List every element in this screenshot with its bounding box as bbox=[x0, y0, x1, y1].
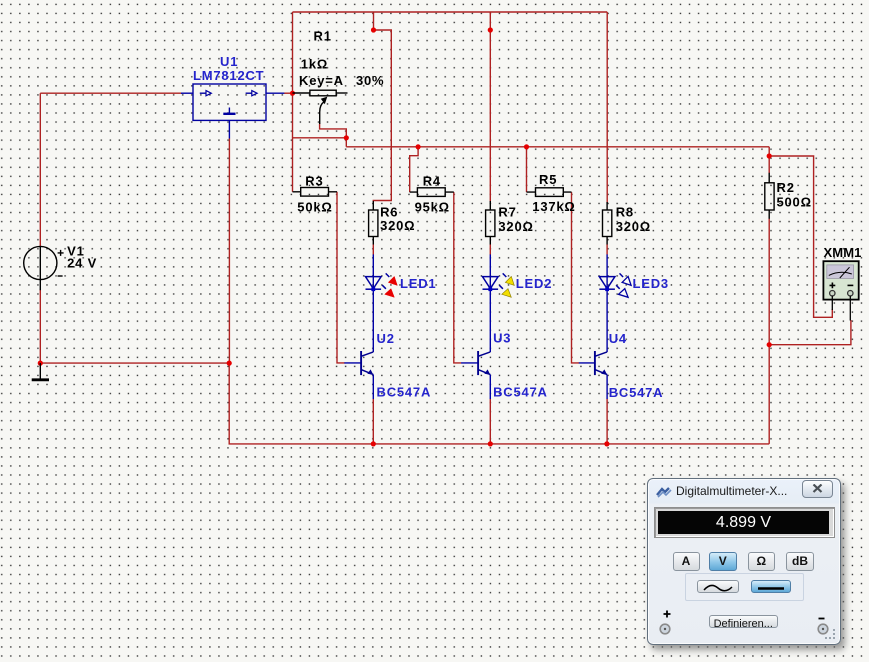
svg-text:R7: R7 bbox=[498, 205, 516, 220]
svg-text:BC547A: BC547A bbox=[609, 385, 664, 400]
svg-text:137kΩ: 137kΩ bbox=[532, 199, 575, 214]
svg-text:30%: 30% bbox=[356, 73, 384, 88]
svg-text:1kΩ: 1kΩ bbox=[301, 57, 328, 72]
svg-text:500Ω: 500Ω bbox=[777, 195, 812, 210]
svg-text:Key=A: Key=A bbox=[299, 73, 344, 88]
svg-text:R3: R3 bbox=[305, 174, 323, 189]
svg-text:R8: R8 bbox=[616, 205, 634, 220]
svg-text:50kΩ: 50kΩ bbox=[297, 200, 332, 215]
svg-text:LED2: LED2 bbox=[516, 276, 552, 291]
svg-text:320Ω: 320Ω bbox=[380, 218, 415, 233]
svg-text:24 V: 24 V bbox=[67, 256, 97, 271]
svg-text:LED1: LED1 bbox=[400, 276, 436, 291]
svg-text:R2: R2 bbox=[777, 180, 795, 195]
svg-text:U2: U2 bbox=[377, 331, 395, 346]
svg-text:R4: R4 bbox=[423, 174, 441, 189]
svg-text:95kΩ: 95kΩ bbox=[415, 200, 450, 215]
svg-text:320Ω: 320Ω bbox=[498, 219, 533, 234]
svg-text:320Ω: 320Ω bbox=[616, 219, 651, 234]
svg-text:LM7812CT: LM7812CT bbox=[193, 68, 264, 83]
svg-text:U4: U4 bbox=[609, 331, 627, 346]
svg-text:U1: U1 bbox=[220, 54, 238, 69]
svg-text:R1: R1 bbox=[314, 29, 332, 44]
svg-text:BC547A: BC547A bbox=[493, 385, 548, 400]
svg-text:U3: U3 bbox=[493, 331, 511, 346]
svg-text:LED3: LED3 bbox=[633, 276, 669, 291]
svg-text:BC547A: BC547A bbox=[377, 385, 432, 400]
svg-text:XMM1: XMM1 bbox=[824, 245, 862, 260]
svg-text:R5: R5 bbox=[539, 172, 557, 187]
